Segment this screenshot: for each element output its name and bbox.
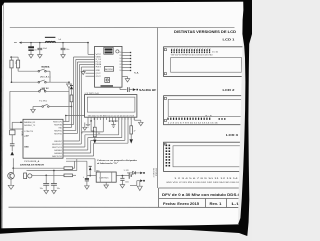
svg-text:RB7/PGD: RB7/PGD	[54, 133, 63, 135]
LCD1 hole bottom	[164, 73, 166, 75]
capacitor C2	[39, 42, 41, 44]
svg-text:RB1/RX/DT: RB1/RX/DT	[52, 144, 62, 146]
svg-text:D4: D4	[120, 58, 122, 60]
DDS test header	[104, 47, 113, 54]
svg-text:RST: RST	[96, 67, 102, 69]
wire DDS pin FQ_UD	[77, 61, 94, 63]
LCD1 pin header pads	[171, 49, 172, 51]
svg-text:LM7805: LM7805	[100, 177, 109, 179]
wire	[17, 68, 19, 71]
ground C4	[44, 190, 49, 193]
LCD display area	[87, 97, 135, 112]
svg-text:1 2 3 4 5 6 7 8: 1 2 3 4 5 6 7 8 9 10 11 12 13 14 15	[174, 178, 246, 180]
+5V arrow R3	[70, 84, 73, 86]
svg-text:SALIDA 12V: SALIDA 12V	[152, 168, 155, 178]
resistor R2	[17, 60, 20, 68]
wire reg in	[87, 175, 96, 177]
ground SW4	[31, 109, 36, 112]
node resistor tops	[10, 56, 12, 58]
wire	[113, 121, 115, 125]
LCD2 display area	[168, 99, 241, 116]
ground C6	[85, 186, 90, 189]
+5V arrow	[89, 165, 92, 167]
ground C3	[61, 55, 66, 58]
svg-text:(M1 A 1): (M1 A 1)	[40, 76, 51, 79]
DDS bottom pin text row	[101, 85, 114, 87]
LCD module main	[85, 95, 137, 118]
svg-text:ANTENA EXTERIOR: ANTENA EXTERIOR	[20, 164, 45, 167]
LCD3 display area	[173, 146, 242, 167]
node C7	[122, 175, 124, 177]
DDS gnd pin	[83, 69, 94, 71]
resistor R1	[10, 60, 13, 68]
LCD1 outline	[164, 47, 245, 77]
LCD1 display area	[171, 58, 242, 73]
diode D1	[127, 172, 132, 174]
transistor Q1	[8, 173, 15, 180]
wire gnd stem	[139, 181, 141, 187]
wire MCLR	[71, 102, 73, 128]
svg-text:al fabricarlo "G": al fabricarlo "G"	[97, 163, 118, 165]
photo bottom shadow band	[0, 224, 247, 236]
LCD3 outline	[164, 142, 245, 171]
svg-text:D2: D2	[120, 64, 122, 66]
svg-text:Rev. 1: Rev. 1	[210, 202, 222, 206]
battery B1	[128, 172, 130, 178]
wire DDS pin RST	[81, 66, 94, 68]
svg-text:D5: D5	[120, 55, 122, 57]
svg-text:100n: 100n	[66, 49, 70, 51]
wire +V rail	[22, 42, 88, 44]
node C5	[53, 170, 55, 172]
pad out1	[143, 172, 145, 174]
svg-text:4 MHz: 4 MHz	[21, 131, 23, 136]
ground LCD VSS	[86, 124, 90, 127]
photo right shadow band	[238, 0, 252, 236]
svg-text:LCD 1: LCD 1	[223, 38, 235, 42]
wire VDD feed	[66, 115, 85, 117]
frame bottom border	[9, 206, 245, 208]
svg-text:Fecha: Enero 2015: Fecha: Enero 2015	[163, 202, 199, 206]
svg-text:100n: 100n	[40, 188, 44, 190]
wire DDS pin D7	[86, 75, 95, 77]
photo left edge	[0, 0, 2, 233]
svg-text:RB3/CCP1: RB3/CCP1	[53, 121, 62, 123]
ground DDS	[81, 72, 85, 75]
svg-text:RB5: RB5	[59, 127, 62, 129]
node VDD	[90, 120, 92, 122]
wire	[11, 68, 13, 82]
svg-text:47: 47	[134, 131, 136, 133]
wire +V feed2	[66, 160, 87, 162]
wire	[136, 181, 138, 186]
ground C5	[52, 190, 57, 193]
connector ring	[116, 50, 119, 53]
svg-text:100nF: 100nF	[43, 48, 47, 50]
svg-text:D1: D1	[120, 67, 122, 69]
wire	[32, 107, 34, 110]
svg-text:B+ B-: B+ B-	[206, 115, 214, 117]
wire antenna rail 3	[34, 174, 65, 176]
ground regulator	[105, 182, 107, 185]
wire DDS pin DATA	[80, 63, 95, 65]
svg-text:D0: D0	[120, 70, 122, 72]
svg-text:RB6/PGC: RB6/PGC	[54, 130, 63, 132]
resistor R4	[64, 167, 73, 170]
svg-text:100n: 100n	[57, 188, 61, 190]
ground C1	[29, 55, 34, 58]
svg-text:ZOUT: ZOUT	[96, 76, 101, 78]
LCD3 pin pad grid	[166, 145, 168, 147]
frame top border	[10, 26, 235, 28]
node bus	[71, 106, 73, 108]
wire from PIC	[12, 158, 14, 168]
wire antenna rail 1	[13, 167, 64, 169]
svg-text:RB4/PGM: RB4/PGM	[54, 124, 63, 126]
photo top-left corner	[0, 0, 6, 9]
input terminal arrow	[14, 42, 17, 44]
ground D0-D3	[111, 125, 115, 128]
inductor L1	[45, 41, 55, 42]
panel divider	[157, 28, 159, 188]
bus wires	[63, 121, 69, 123]
svg-text:10K: 10K	[98, 133, 101, 135]
wire	[130, 185, 137, 187]
node D0-D3 tie	[109, 120, 118, 122]
ground outputs	[137, 186, 142, 190]
wire DDS pin W_CLK	[76, 58, 95, 60]
LCD2 pin header pads	[167, 118, 168, 120]
svg-text:Tx Rx: Tx Rx	[39, 101, 47, 103]
capacitor C1 electrolytic	[30, 42, 32, 44]
IC U1 PIC16F628	[23, 119, 63, 158]
wire +V feed	[66, 158, 95, 160]
terminal arrow 2	[137, 180, 140, 182]
svg-text:9..12V: 9..12V	[124, 170, 130, 172]
ground DDS out	[125, 79, 130, 82]
node row2	[68, 81, 70, 83]
svg-text:100n: 100n	[125, 181, 129, 183]
svg-text:15 16: 15 16	[212, 51, 218, 53]
page left scan edge	[2, 2, 3, 229]
capacitor C3	[62, 42, 64, 44]
switch SW1 row1	[18, 70, 38, 72]
svg-text:10n: 10n	[34, 49, 37, 51]
switch SW2 row2	[12, 81, 39, 83]
trimmer RV1 contrast	[91, 130, 93, 132]
svg-text:PIC16F628_A: PIC16F628_A	[24, 160, 40, 163]
svg-text:RB2/TX/CK: RB2/TX/CK	[52, 147, 62, 149]
node rail/DDS drop	[87, 42, 89, 44]
svg-text:LCD 3: LCD 3	[226, 133, 238, 137]
node C4	[45, 174, 47, 176]
wire OSC2	[10, 128, 23, 130]
L1 value bar	[45, 37, 56, 38]
svg-text:SALIDA HF: SALIDA HF	[139, 88, 156, 92]
svg-text:1uH: 1uH	[58, 39, 61, 41]
wire antenna rail 2	[27, 170, 77, 172]
svg-text:DFV de 0 a 30 Mhz con módulo: DFV de 0 a 30 Mhz con módulo DDS.6	[162, 193, 240, 197]
LCD2 hole bottom	[164, 119, 166, 121]
photo top edge	[0, 0, 252, 3]
svg-text:D3: D3	[120, 61, 122, 63]
connector J1 jack	[24, 173, 27, 179]
svg-text:FQ_UD: FQ_UD	[96, 62, 102, 64]
wire switch bus	[49, 71, 51, 82]
pad out2	[143, 180, 145, 182]
wire	[90, 121, 92, 131]
svg-text:ENTRADA: ENTRADA	[155, 168, 158, 177]
svg-text:BANDA: BANDA	[42, 66, 50, 69]
svg-text:LCD TEXTO 2x16: LCD TEXTO 2x16	[85, 93, 99, 95]
svg-text:W_CLK: W_CLK	[96, 59, 102, 61]
capacitor C7	[121, 176, 123, 179]
ground LCD case	[83, 127, 87, 130]
wire	[74, 161, 76, 168]
wire	[122, 76, 128, 78]
resistor R6 backlight	[130, 117, 132, 126]
output SALIDA HF	[119, 87, 121, 89]
wire reg out	[116, 175, 129, 177]
resistor R5	[64, 174, 73, 177]
LCD2 hole top	[164, 97, 166, 99]
ground LCD K	[139, 122, 144, 125]
svg-text:N.A.: N.A.	[134, 71, 140, 74]
svg-text:Coloca en un pequeño disipador: Coloca en un pequeño disipador	[97, 159, 137, 162]
LCD3 hole	[164, 143, 166, 145]
LCD pins	[87, 117, 89, 120]
LCD2 outline	[164, 96, 245, 125]
svg-text:1 2 3 4 5 6 7 8 9 10 11 12 13: 1 2 3 4 5 6 7 8 9 10 11 12 13 14 15 16	[168, 123, 218, 125]
capacitor C5	[53, 171, 55, 184]
module U2 DDS	[95, 46, 122, 87]
crystal module xtal	[105, 78, 110, 83]
crystal X1 4MHz	[11, 122, 13, 130]
arrow down row2	[67, 84, 72, 88]
resistor R3	[70, 95, 73, 102]
wire DDS pin GND	[74, 56, 95, 58]
wire OSC1	[12, 121, 23, 123]
wire DDS pin D6	[86, 72, 95, 74]
wire DDS pin VCC	[88, 53, 95, 55]
wire	[76, 159, 78, 171]
LCD1 hole top	[164, 49, 166, 51]
wire left rail	[9, 91, 11, 129]
title block	[159, 187, 244, 189]
svg-text:RB0/INT: RB0/INT	[54, 141, 62, 143]
svg-text:LCD 2: LCD 2	[223, 88, 235, 92]
regulator U3 7805	[96, 172, 116, 182]
svg-text:D6: D6	[120, 52, 122, 54]
svg-text:GND: GND	[24, 146, 29, 148]
ground Q1	[8, 185, 14, 189]
capacitor C4	[45, 175, 47, 183]
pushbutton SW3 row3	[10, 90, 39, 92]
svg-text:10K: 10K	[14, 61, 16, 64]
node antenna rail	[12, 167, 14, 169]
DDS right pins	[122, 52, 130, 54]
wire	[87, 120, 89, 124]
wire K	[133, 117, 135, 120]
ground C7	[120, 185, 125, 188]
wire resistor tops	[11, 56, 18, 58]
svg-text:DISTINTAS VERSIONES DE LCD: DISTINTAS VERSIONES DE LCD	[174, 30, 237, 34]
wire gnd stub	[84, 123, 86, 128]
wire to PIC top	[68, 88, 70, 122]
wire to DDS VCC	[87, 43, 89, 55]
AD9850 chip	[104, 67, 113, 72]
capacitor C6 electrolytic	[86, 176, 88, 179]
ground C2	[38, 55, 43, 58]
svg-text:QOUT: QOUT	[96, 73, 101, 75]
svg-text:1 2 3 4 5 6 7 8 9 0 1 2 3 4 5: 1 2 3 4 5 6 7 8 9 0 1 2 3 4 5 6	[171, 48, 212, 50]
